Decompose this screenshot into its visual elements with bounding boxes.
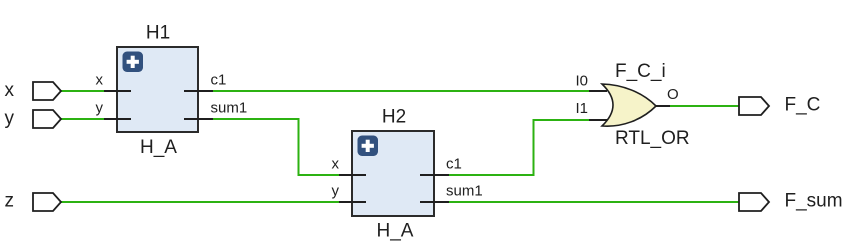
input port y	[5, 108, 62, 129]
svg-text:c1: c1	[211, 72, 227, 89]
half-adder H2	[352, 131, 434, 216]
svg-text:H_A: H_A	[140, 137, 177, 158]
wire z to H2.y	[61, 201, 341, 203]
svg-text:c1: c1	[446, 156, 462, 173]
svg-text:x: x	[332, 156, 340, 173]
wire OR.O to F_C	[668, 105, 739, 107]
svg-text:O: O	[667, 86, 679, 103]
half-adder H1	[117, 47, 198, 132]
label H2	[382, 107, 406, 128]
label H1	[146, 23, 170, 44]
svg-text:F_C: F_C	[785, 95, 821, 116]
svg-text:H1: H1	[146, 23, 170, 44]
svg-text:H2: H2	[382, 107, 406, 128]
label H_A (H1)	[140, 137, 177, 158]
pin c1 of H1	[184, 72, 226, 91]
pin sum1 of H2	[420, 183, 483, 203]
svg-text:z: z	[5, 191, 15, 212]
output port F_C	[739, 95, 820, 116]
svg-text:F_sum: F_sum	[785, 191, 843, 212]
label F_C_i	[615, 61, 666, 82]
output port F_sum	[739, 191, 843, 212]
pin y of H2	[332, 183, 367, 203]
pin y of H1	[96, 99, 132, 119]
pin c1 of H2	[420, 156, 462, 176]
label RTL_OR	[615, 128, 690, 149]
svg-text:I1: I1	[575, 100, 588, 117]
pin O of OR gate	[655, 86, 679, 106]
wire y to H1.y	[61, 118, 106, 120]
pin x of H1	[96, 72, 132, 91]
wire H2.c1 to OR.I1	[448, 120, 590, 175]
pin x of H2	[332, 156, 367, 176]
svg-text:sum1: sum1	[446, 183, 483, 200]
pin sum1 of H1	[184, 99, 247, 119]
svg-text:y: y	[96, 99, 104, 116]
pin I0 of OR gate	[575, 72, 607, 91]
svg-text:F_C_i: F_C_i	[615, 61, 666, 82]
wire H1.c1 to OR.I0	[213, 90, 590, 92]
svg-text:sum1: sum1	[211, 99, 248, 116]
input port z	[5, 191, 62, 212]
wire x to H1.x	[61, 90, 106, 92]
or-gate F_C_i (RTL_OR)	[602, 84, 656, 126]
input port x	[5, 80, 62, 101]
svg-text:y: y	[5, 108, 15, 129]
svg-text:y: y	[332, 183, 340, 200]
svg-text:x: x	[96, 72, 104, 89]
svg-text:I0: I0	[575, 72, 588, 89]
wire H1.sum1 to H2.x	[213, 119, 341, 175]
pin I1 of OR gate	[575, 100, 607, 120]
svg-text:x: x	[5, 80, 15, 101]
svg-text:RTL_OR: RTL_OR	[615, 128, 690, 149]
svg-text:H_A: H_A	[377, 221, 414, 242]
label H_A (H2)	[377, 221, 414, 242]
wire H2.sum1 to F_sum	[448, 201, 739, 203]
